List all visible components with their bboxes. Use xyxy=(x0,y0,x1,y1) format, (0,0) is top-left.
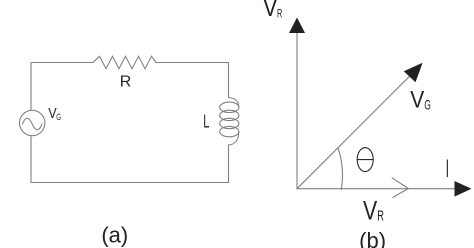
svg-text:R: R xyxy=(120,74,132,91)
svg-text:R: R xyxy=(377,208,384,224)
svg-text:V: V xyxy=(263,0,278,22)
svg-text:L: L xyxy=(203,111,209,131)
svg-text:V: V xyxy=(410,87,424,114)
svg-text:R: R xyxy=(277,7,283,21)
svg-text:G: G xyxy=(424,96,431,112)
svg-text:G: G xyxy=(56,112,61,123)
svg-text:(b): (b) xyxy=(359,228,386,248)
svg-text:I: I xyxy=(446,155,449,183)
svg-text:V: V xyxy=(363,195,377,225)
svg-text:(a): (a) xyxy=(101,222,128,247)
